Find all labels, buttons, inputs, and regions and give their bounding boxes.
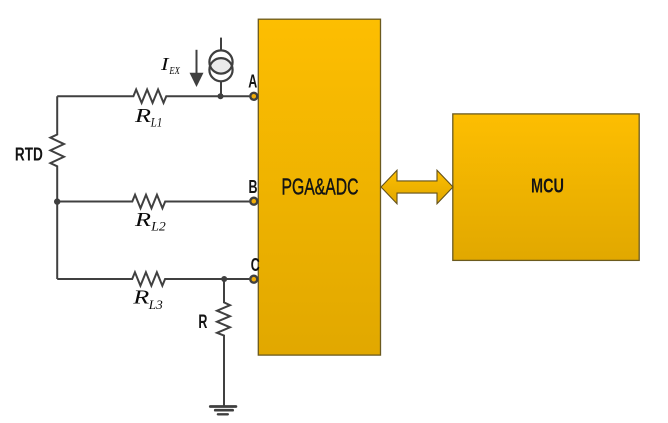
svg-text:PGA&ADC: PGA&ADC	[282, 174, 359, 200]
svg-text:L2: L2	[150, 220, 166, 234]
svg-text:A: A	[248, 71, 257, 92]
svg-text:I: I	[160, 54, 170, 74]
svg-text:EX: EX	[169, 66, 181, 77]
svg-text:MCU: MCU	[531, 176, 564, 198]
svg-text:B: B	[249, 176, 258, 197]
svg-text:R: R	[134, 210, 151, 231]
svg-text:R: R	[134, 106, 151, 127]
svg-text:RTD: RTD	[15, 143, 43, 164]
svg-text:R: R	[132, 288, 149, 309]
svg-text:L1: L1	[150, 115, 162, 129]
svg-text:C: C	[251, 254, 260, 275]
svg-text:L3: L3	[148, 298, 163, 312]
svg-text:R: R	[198, 311, 207, 333]
